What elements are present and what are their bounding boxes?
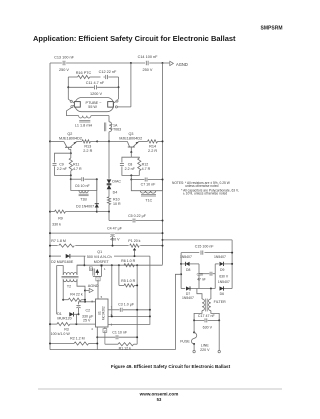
node C17 left: [193, 319, 195, 321]
svg-text:47 nF: 47 nF: [197, 278, 206, 282]
svg-text:T1C: T1C: [145, 199, 152, 203]
svg-text:330 k: 330 k: [52, 222, 61, 226]
svg-text:D8: D8: [186, 268, 190, 272]
svg-text:100 k/1.0 W: 100 k/1.0 W: [51, 332, 71, 336]
wire right line column: [218, 320, 220, 350]
svg-text:AGND: AGND: [88, 284, 99, 288]
node R2 right: [96, 343, 98, 345]
footer url: [139, 391, 179, 396]
node rail C4 right: [162, 232, 164, 234]
wire L1 to T1A: [91, 116, 109, 122]
node C2 tap: [84, 301, 86, 303]
figure caption: [111, 364, 231, 369]
node rail R14: [162, 140, 164, 142]
svg-text:D2 MUR160E: D2 MUR160E: [51, 260, 74, 264]
label 1N5407 D9: [214, 255, 226, 259]
svg-text:C6 10 nF: C6 10 nF: [75, 184, 91, 188]
resistor R1: [105, 343, 137, 351]
page title: [33, 34, 236, 43]
svg-text:MUR120: MUR120: [57, 317, 71, 321]
node rail Q2 wire: [49, 140, 51, 142]
footer page number: [157, 397, 162, 402]
node C11 left: [67, 86, 69, 88]
svg-text:C7 10 nF: C7 10 nF: [141, 182, 157, 186]
ground AGND2: [84, 284, 99, 293]
svg-text:2.2 nF: 2.2 nF: [125, 167, 136, 171]
capacitor C17: [194, 314, 219, 330]
diode D4: [107, 185, 118, 197]
wire Q1 drain stub: [111, 265, 113, 316]
svg-text:SMPSRM: SMPSRM: [261, 26, 283, 32]
svg-text:R11: R11: [73, 162, 79, 166]
capacitor C7: [131, 178, 162, 187]
svg-text:1N5407: 1N5407: [180, 255, 192, 259]
svg-text:R5 1.0 R: R5 1.0 R: [121, 279, 136, 283]
potentiometer P1: [128, 239, 140, 256]
node C3 right: [149, 309, 151, 311]
node rail R2: [49, 343, 51, 345]
pin 7 wire C3 row: [108, 305, 150, 310]
node rail R7: [49, 245, 51, 247]
diode D9: [215, 262, 232, 272]
notes block: [172, 181, 239, 196]
label R13: [83, 145, 92, 153]
svg-text:250 V: 250 V: [59, 68, 69, 72]
svg-text:R13: R13: [84, 145, 91, 149]
svg-text:R3: R3: [64, 327, 69, 331]
node rail HB bottom: [49, 211, 51, 213]
svg-text:4.7 R: 4.7 R: [73, 167, 82, 171]
svg-text:D3 1N4007: D3 1N4007: [76, 204, 94, 208]
svg-text:250 V: 250 V: [143, 68, 153, 72]
wire bridge bottom: [181, 288, 232, 290]
svg-text:R9: R9: [58, 217, 63, 221]
wire tank right drop: [118, 77, 120, 99]
lamp right filament: [108, 99, 119, 108]
wire R3 to D1: [76, 314, 78, 324]
node drain D2: [83, 264, 85, 266]
wire fuse column: [193, 320, 195, 332]
capacitor C2 (polarized): [76, 302, 94, 323]
capacitor C13: [54, 56, 75, 73]
wire left rail: [49, 63, 51, 350]
node R6 right: [136, 264, 138, 266]
wire Q2 net drop: [70, 175, 72, 179]
svg-text:10 R: 10 R: [113, 202, 121, 206]
svg-text:C1 10 nF: C1 10 nF: [112, 331, 128, 335]
wire top row: [50, 62, 163, 64]
resistor R3: [51, 323, 71, 336]
svg-text:R14: R14: [149, 145, 156, 149]
node rail P1: [162, 245, 164, 247]
wire D2 to drain: [83, 256, 85, 265]
svg-text:500 V/4 A N-Ch: 500 V/4 A N-Ch: [87, 255, 112, 259]
svg-text:25 V: 25 V: [83, 319, 91, 323]
svg-text:± 10%, unless otherwise noted: ± 10%, unless otherwise noted: [183, 192, 227, 196]
resistor R2: [70, 336, 88, 345]
diac DIAC: [107, 179, 122, 183]
node rail C4 left: [49, 232, 51, 234]
svg-text:C15 100 nF: C15 100 nF: [195, 244, 215, 248]
svg-text:D9: D9: [220, 268, 224, 272]
node C11 right: [118, 86, 120, 88]
svg-text:MJE18004D2: MJE18004D2: [59, 137, 82, 141]
svg-text:220 V: 220 V: [200, 348, 210, 352]
wire bridge top: [181, 252, 232, 254]
node rail AC top: [162, 239, 164, 241]
svg-text:Q2: Q2: [67, 132, 72, 136]
ground AGND top: [163, 61, 188, 67]
svg-text:DIAC: DIAC: [112, 180, 121, 184]
lamp PTUBE 55W body: [75, 98, 114, 112]
node drain R6: [118, 264, 120, 266]
svg-text:FT063: FT063: [111, 128, 121, 132]
node filter right top: [210, 288, 212, 290]
svg-text:1N5407: 1N5407: [182, 296, 194, 300]
svg-text:R12: R12: [142, 162, 149, 166]
svg-text:T1B: T1B: [80, 197, 87, 201]
svg-text:R4 22 k: R4 22 k: [70, 293, 83, 297]
node rail R3: [49, 323, 51, 325]
node R5 right: [136, 284, 138, 286]
svg-text:C3 1.0 μF: C3 1.0 μF: [118, 302, 135, 306]
diode D7: [182, 286, 194, 300]
node midpoint left: [96, 140, 98, 142]
wire R3 row: [50, 323, 96, 325]
diode D3: [76, 204, 99, 212]
node R3 D1 tap: [75, 323, 77, 325]
terminal line left: [193, 350, 195, 352]
node C9 top: [70, 152, 72, 154]
wire R7 P1 row: [50, 245, 163, 247]
svg-text:C4 47 μF: C4 47 μF: [107, 226, 123, 230]
wire Q3 net drop: [130, 175, 132, 179]
transistor Q1 (MOSFET): [86, 250, 115, 282]
capacitor C16: [197, 272, 216, 282]
node C7 left: [130, 179, 132, 181]
node drain Q1: [111, 264, 113, 266]
svg-text:630 V: 630 V: [219, 274, 229, 278]
svg-text:C11 4.7 nF: C11 4.7 nF: [86, 81, 105, 85]
svg-text:MJE18004D2: MJE18004D2: [119, 137, 142, 141]
svg-text:www.onsemi.com: www.onsemi.com: [139, 391, 179, 396]
svg-text:C13 100 nF: C13 100 nF: [54, 56, 75, 60]
svg-text:AGND: AGND: [176, 62, 188, 67]
svg-text:C2: C2: [86, 309, 91, 313]
capacitor C3: [118, 302, 135, 311]
wire Q3 base drop: [130, 147, 132, 152]
node C1 left: [96, 336, 98, 338]
transformer T2 primary: [57, 265, 85, 314]
pin 4 label U1 bottom-left: [91, 327, 93, 331]
svg-text:1N5407: 1N5407: [218, 280, 230, 284]
capacitor C9 branch: [53, 153, 71, 175]
wire VCC node: [85, 301, 96, 303]
footer rule: [38, 388, 282, 390]
node C6 left: [70, 178, 72, 180]
transformer T1C: [131, 180, 162, 203]
resistor R10: [107, 197, 121, 212]
svg-text:MC34262: MC34262: [102, 306, 106, 320]
node C7 right rail: [162, 179, 164, 181]
svg-text:P1 20 k: P1 20 k: [128, 239, 140, 243]
resistor R16 PTC: [68, 71, 100, 78]
node bridge right D9: [231, 263, 233, 265]
wire fuse to terminal: [193, 344, 195, 350]
capacitor C8 branch: [120, 157, 136, 175]
node D1 C2: [78, 313, 80, 315]
wire bridge mid-left column: [198, 264, 200, 289]
svg-text:C14 100 nF: C14 100 nF: [138, 55, 159, 59]
wire Q2 base drop: [69, 147, 71, 153]
transformer T1B: [71, 179, 97, 201]
terminal line right: [218, 350, 220, 352]
page header SMPSRM: [261, 26, 283, 32]
svg-text:1: 1: [104, 267, 106, 271]
svg-text:L1 1.8 mH: L1 1.8 mH: [75, 124, 93, 128]
svg-text:R7 1.8 M: R7 1.8 M: [51, 239, 66, 243]
svg-text:C5 0.22 μF: C5 0.22 μF: [128, 214, 147, 218]
diode D6: [220, 286, 225, 296]
node P1 wiper tap: [134, 255, 136, 257]
node lamp-right top-wire junction: [130, 62, 132, 64]
label R6: [121, 259, 136, 263]
svg-text:MOSFET: MOSFET: [94, 260, 110, 264]
svg-text:D6: D6: [220, 292, 224, 296]
wire drain row: [77, 264, 163, 266]
svg-text:C8: C8: [128, 162, 133, 166]
capacitor C12: [99, 70, 119, 79]
pin 1 wire: [111, 323, 113, 327]
node pin6 right: [149, 315, 151, 317]
capacitor C14: [138, 55, 159, 72]
transformer T2 secondary: [63, 279, 85, 302]
pin 8 label U1 left: [91, 300, 93, 304]
wire AC neutral: [175, 274, 181, 349]
diode D1: [57, 312, 78, 321]
svg-text:R6 1.0 R: R6 1.0 R: [121, 259, 136, 263]
capacitor C6: [71, 177, 97, 188]
wire Q3 base drop2: [130, 152, 132, 157]
svg-text:C16: C16: [197, 273, 203, 277]
svg-text:C12 22 nF: C12 22 nF: [99, 70, 117, 74]
node C4 bottom: [112, 245, 114, 247]
op-amp U1 MC34262: [96, 299, 109, 327]
node fuse top: [193, 331, 195, 333]
wire HB bottom step: [109, 212, 132, 221]
label LINE 220V: [200, 344, 210, 352]
svg-text:T2: T2: [67, 284, 71, 288]
svg-text:R16 PTC: R16 PTC: [76, 71, 92, 75]
svg-text:630 V: 630 V: [203, 326, 213, 330]
svg-text:4.7 R: 4.7 R: [142, 167, 151, 171]
wire AC top row: [163, 240, 233, 289]
svg-text:FUSE: FUSE: [180, 339, 190, 343]
capacitor C11: [68, 81, 118, 89]
node rail D2: [49, 255, 51, 257]
node T2 R4 junction: [62, 299, 64, 301]
svg-text:5: 5: [101, 295, 103, 299]
label 630V 1N5407: [218, 274, 230, 284]
node R10 bottom: [108, 211, 110, 213]
diode D2: [50, 254, 150, 264]
node bridge top right: [231, 252, 233, 254]
svg-text:Application: Efficient Safety: Application: Efficient Safety Circuit fo…: [33, 34, 236, 43]
capacitor C15: [195, 244, 215, 254]
wire R2 row: [50, 343, 97, 345]
inductor L1: [75, 116, 93, 128]
svg-text:450 V: 450 V: [110, 238, 120, 242]
wire bottom rail: [50, 349, 175, 351]
node pin6 drain stub: [111, 315, 113, 317]
svg-text:2.2 R: 2.2 R: [148, 149, 157, 153]
wire lamp right return: [118, 63, 131, 107]
node AC left: [180, 273, 182, 275]
svg-text:FILTER: FILTER: [214, 300, 227, 304]
svg-text:4: 4: [91, 327, 93, 331]
label 1N5407 D8: [180, 255, 192, 259]
resistor R5: [119, 284, 137, 287]
node top-right junction: [162, 62, 164, 64]
diode D8: [181, 262, 199, 272]
capacitor C1: [97, 331, 137, 340]
resistor R12: [131, 157, 150, 175]
node C6 right: [96, 178, 98, 180]
node R4 right: [84, 299, 86, 301]
pin 2 boxed label: [103, 327, 107, 344]
node Q3 base: [130, 151, 132, 153]
wire R5 loop left: [118, 265, 120, 285]
svg-text:Figure 49. Efficient Safety Ci: Figure 49. Efficient Safety Circuit for …: [111, 364, 231, 369]
resistor R7: [51, 239, 75, 248]
transistor Q3: [119, 132, 142, 147]
transformer FILTER: [194, 289, 226, 321]
svg-text:53: 53: [157, 397, 162, 402]
node rail C5: [162, 220, 164, 222]
svg-text:D1: D1: [57, 312, 62, 316]
node D3 bottom: [96, 211, 98, 213]
capacitor C5: [128, 214, 162, 223]
svg-text:C9: C9: [59, 162, 64, 166]
resistor R11: [69, 153, 82, 175]
svg-text:Q3: Q3: [129, 132, 134, 136]
wire Q1 source to U1: [97, 282, 99, 299]
wire T1A to midpoint: [108, 132, 110, 142]
svg-text:2.2 R: 2.2 R: [83, 149, 92, 153]
wire bridge mid-right column: [214, 264, 216, 289]
wire tank left drop: [67, 77, 69, 99]
node bridge left D8: [180, 263, 182, 265]
wire rail to Q2: [50, 140, 64, 142]
label R5: [121, 279, 136, 283]
transformer T1A: [104, 122, 121, 132]
resistor R13: [77, 140, 98, 143]
svg-text:PTUBE ~: PTUBE ~: [86, 101, 103, 105]
wire lamp to L1: [67, 108, 79, 116]
node C8 bottom: [130, 174, 132, 176]
node C9 bottom: [70, 174, 72, 176]
resistor R6: [124, 264, 134, 267]
svg-text:R10: R10: [113, 198, 120, 202]
pin 5 label U1 top: [101, 295, 103, 299]
svg-text:1200 V: 1200 V: [90, 92, 103, 96]
wire right rail: [162, 63, 164, 265]
node C1 right: [136, 336, 138, 338]
svg-text:C17 47 nF: C17 47 nF: [198, 314, 216, 318]
node midpoint T1A: [108, 140, 110, 142]
lamp left filament: [68, 99, 80, 107]
wire midpoint segment: [97, 140, 127, 142]
svg-text:55 W: 55 W: [88, 105, 97, 109]
node fuse bottom: [193, 343, 195, 345]
label 1200 V: [90, 92, 103, 96]
svg-text:D4: D4: [113, 190, 118, 194]
svg-text:7: 7: [111, 305, 113, 309]
wire U1 bottom column: [96, 327, 98, 350]
label R14: [148, 145, 157, 153]
resistor R4: [63, 293, 85, 302]
capacitor C4 (polarized): [107, 226, 123, 245]
svg-text:2.2 nF: 2.2 nF: [57, 167, 68, 171]
resistor R14: [139, 140, 163, 143]
resistor R9: [50, 210, 97, 226]
svg-text:Q1: Q1: [97, 250, 102, 254]
wire HB bottom right: [97, 211, 109, 213]
node C3 sense: [136, 309, 138, 311]
fuse FUSE: [180, 332, 197, 344]
node C17 right: [218, 319, 220, 321]
wire bridge left column: [180, 253, 182, 289]
wire midpoint down: [108, 141, 110, 178]
wire C4 row: [50, 232, 163, 234]
svg-text:R2 1.2 M: R2 1.2 M: [70, 336, 85, 340]
wire D2 column: [108, 256, 150, 324]
pin 6 wire: [108, 313, 150, 317]
transistor Q2: [59, 132, 82, 147]
svg-text:1N5407: 1N5407: [214, 255, 226, 259]
wire sense column: [136, 265, 138, 344]
wire C6 node down: [96, 179, 98, 204]
